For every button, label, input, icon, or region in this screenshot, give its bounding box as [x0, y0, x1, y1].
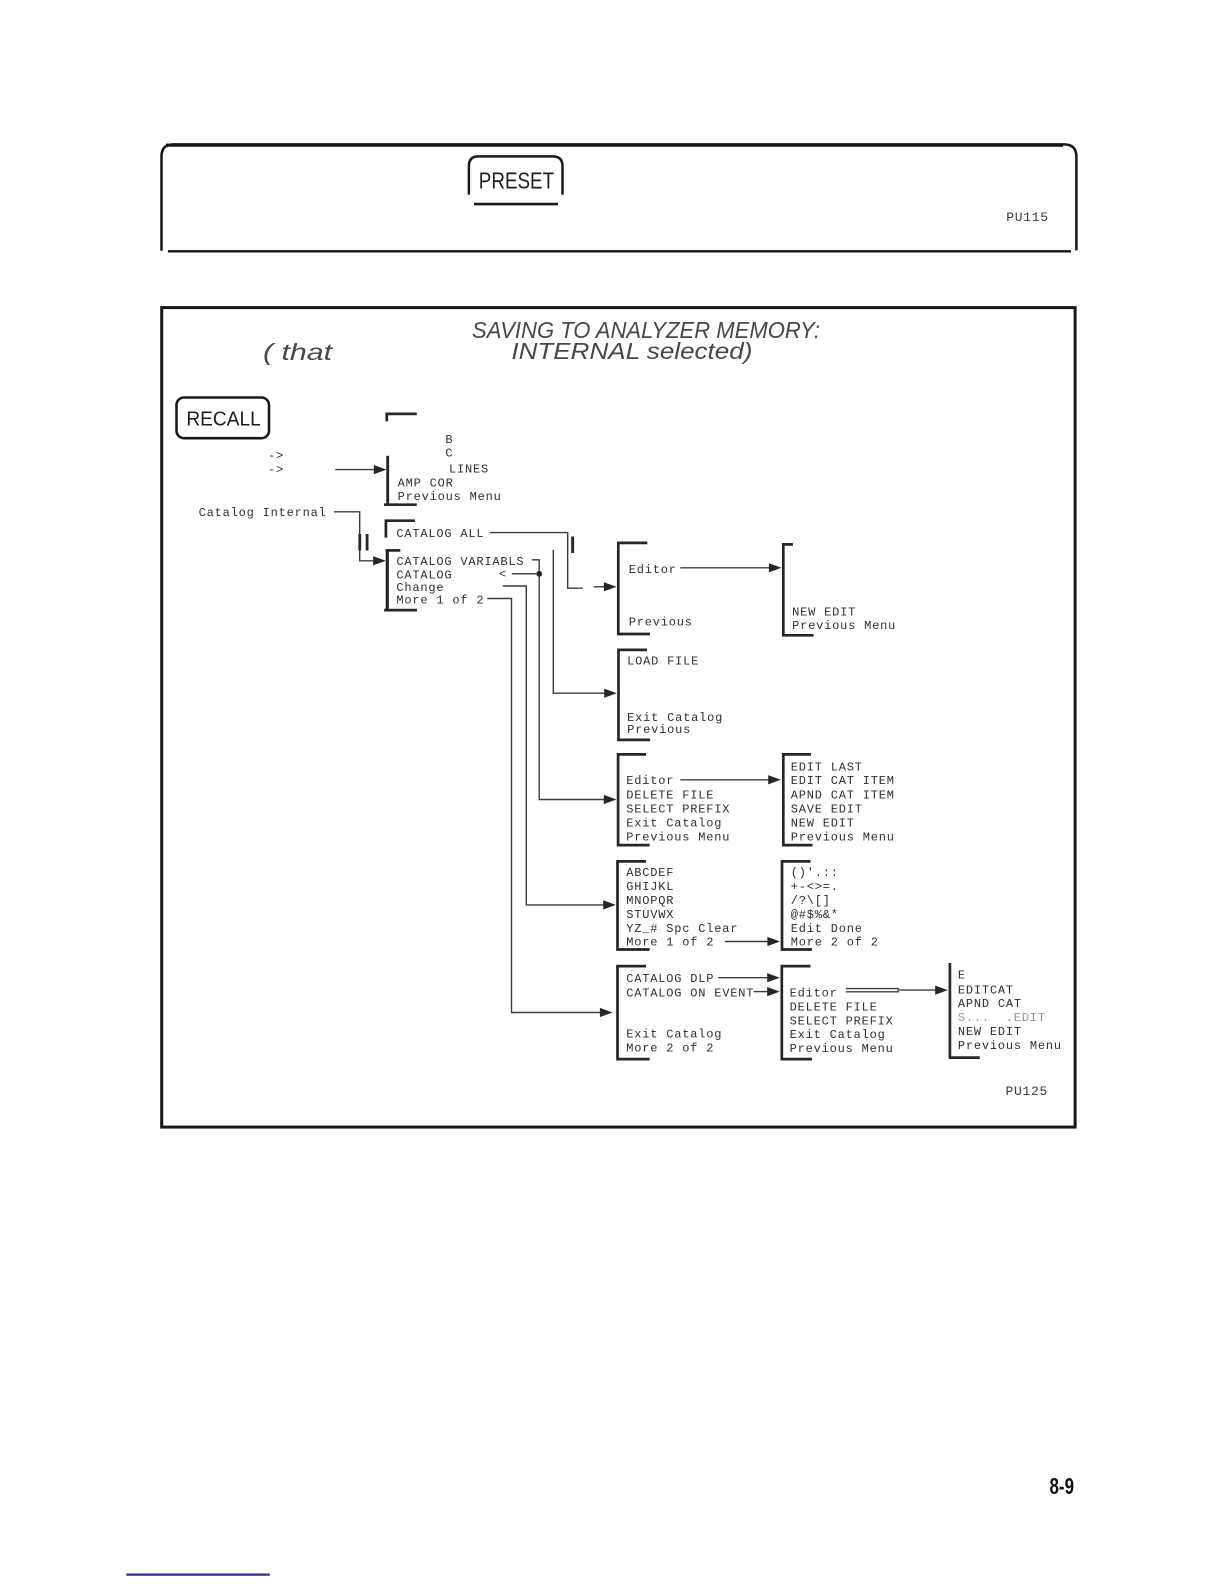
svg-text:LINES: LINES [449, 463, 489, 477]
wire CATALOG ON EVENT to menu M9 [754, 991, 767, 993]
svg-text:SAVE EDIT: SAVE EDIT [791, 802, 863, 816]
svg-text:PRESET: PRESET [479, 168, 554, 194]
wire from Catalog Internal [335, 512, 360, 561]
wire Editor single line to menu M10 [898, 989, 936, 991]
svg-text:CATALOG ALL: CATALOG ALL [396, 527, 484, 541]
svg-text:NEW EDIT: NEW EDIT [791, 817, 855, 831]
menu M8 bracket [618, 966, 649, 1059]
menu M4 bracket [619, 650, 649, 740]
svg-text:MNOPQR: MNOPQR [626, 894, 674, 908]
menu M3 bracket [618, 543, 648, 634]
svg-text:E: E [958, 969, 966, 983]
svg-text:More 1 of 2: More 1 of 2 [396, 593, 484, 607]
svg-text:Editor: Editor [629, 563, 677, 577]
svg-text:/?\[]: /?\[] [791, 894, 831, 908]
top panel bottom line [168, 250, 1071, 252]
svg-text:Exit Catalog: Exit Catalog [626, 817, 722, 831]
key RECALL outline [177, 398, 270, 439]
wire into menu M3 [595, 586, 606, 588]
arrowhead into menu M3 [604, 582, 617, 591]
svg-text:SELECT PREFIX: SELECT PREFIX [790, 1014, 894, 1028]
svg-text:Previous Menu: Previous Menu [791, 830, 895, 844]
svg-text:DELETE FILE: DELETE FILE [790, 1000, 878, 1014]
arrowhead CATALOG ON EVENT into menu M9 [767, 987, 780, 996]
svg-text:B: B [445, 433, 453, 447]
svg-text:PU115: PU115 [1006, 210, 1049, 225]
arrowhead into menu M7 [768, 775, 781, 784]
svg-text:@#$%&*: @#$%&* [791, 908, 839, 922]
wire from Change down to menu M6 [504, 586, 604, 905]
wire More 1 of 2 to menu M6b [726, 941, 769, 943]
svg-text:Previous Menu: Previous Menu [792, 619, 896, 633]
wire from CATALOG VARIABLS down to menu M5 [533, 560, 605, 800]
svg-text:Previous: Previous [627, 723, 691, 737]
svg-text:Exit Catalog: Exit Catalog [790, 1028, 886, 1042]
break bar 2 on Catalog Internal wire [366, 534, 369, 551]
svg-text:NEW EDIT: NEW EDIT [958, 1025, 1022, 1039]
svg-text:CATALOG ON EVENT: CATALOG ON EVENT [626, 987, 754, 1001]
svg-text:->: -> [268, 449, 284, 463]
break bar 1 on Catalog Internal wire [358, 534, 361, 551]
arrowhead into menu M8 [600, 1008, 613, 1017]
svg-text:ABCDEF: ABCDEF [626, 866, 674, 880]
svg-text:LOAD FILE: LOAD FILE [627, 655, 699, 669]
arrowhead into menu M4 [604, 689, 617, 698]
menu M10 bracket [950, 964, 979, 1057]
svg-text:INTERNAL selected): INTERNAL selected) [511, 338, 752, 364]
wire from More 1 of 2 down to menu M8 [488, 599, 601, 1013]
arrowhead CATALOG DLP into menu M9 [767, 973, 780, 982]
arrowhead into menu M1 [374, 465, 387, 474]
top panel top edge thick stroke [166, 144, 1063, 147]
svg-text:DELETE FILE: DELETE FILE [626, 789, 714, 803]
svg-text:C: C [445, 447, 453, 461]
svg-text:8-9: 8-9 [1050, 1473, 1075, 1499]
svg-text:Previous Menu: Previous Menu [790, 1042, 894, 1056]
wire into menu M2 [360, 560, 375, 562]
menu M1 bracket vertical [386, 456, 389, 505]
wire CATALOG DLP to menu M9 [719, 977, 768, 979]
svg-text:Catalog Internal: Catalog Internal [199, 506, 327, 520]
svg-text:CATALOG DLP: CATALOG DLP [626, 972, 714, 986]
svg-text:S... .EDIT: S... .EDIT [958, 1011, 1046, 1025]
svg-text:<: < [499, 568, 507, 582]
menu M2 bracket bottom tick [386, 609, 416, 612]
svg-text:( that: ( that [263, 339, 334, 365]
svg-text:()'.::: ()'.:: [791, 866, 839, 880]
svg-text:More 2 of 2: More 2 of 2 [791, 936, 879, 950]
svg-text:->: -> [268, 463, 284, 477]
svg-text:Previous Menu: Previous Menu [398, 490, 502, 504]
svg-text:EDIT LAST: EDIT LAST [791, 760, 863, 774]
menu M6 bracket [618, 861, 649, 949]
svg-text:Previous Menu: Previous Menu [626, 830, 730, 844]
wire from back arrow to junction [513, 573, 536, 575]
svg-text:YZ_# Spc Clear: YZ_# Spc Clear [626, 922, 738, 936]
menu M1 bracket bottom tick [385, 503, 415, 506]
wire CATALOG ALL jog to editor menu [490, 533, 582, 589]
wire Editor double line lower to menu M10 [847, 991, 899, 993]
svg-text:More 1 of 2: More 1 of 2 [626, 936, 714, 950]
key PRESET underline [474, 203, 558, 206]
arrowhead into menu M10 [935, 986, 948, 995]
svg-text:APND CAT ITEM: APND CAT ITEM [791, 789, 895, 803]
svg-text:Editor: Editor [626, 774, 674, 788]
key PRESET outline [469, 156, 563, 194]
arrowhead into menu M5 [604, 795, 617, 804]
svg-text:EDIT CAT ITEM: EDIT CAT ITEM [791, 774, 895, 788]
svg-text:APND CAT: APND CAT [958, 997, 1022, 1011]
svg-text:EDITCAT: EDITCAT [958, 983, 1014, 997]
menu CATALOG ALL corner bracket [386, 521, 414, 537]
arrowhead into menu M3b [769, 563, 782, 572]
menu M5 bracket [618, 754, 648, 845]
svg-text:SELECT PREFIX: SELECT PREFIX [626, 802, 730, 816]
main diagram box [162, 308, 1075, 1128]
svg-text:Previous Menu: Previous Menu [958, 1039, 1062, 1053]
arrowhead into menu M6 [603, 900, 616, 909]
wire into menu M1 [336, 469, 376, 471]
svg-text:+-<>=.: +-<>=. [791, 880, 839, 894]
svg-text:NEW EDIT: NEW EDIT [792, 605, 856, 619]
svg-text:Editor: Editor [790, 987, 838, 1001]
svg-text:AMP COR: AMP COR [398, 477, 454, 491]
arrowhead into menu M2 [373, 556, 386, 565]
svg-text:Exit Catalog: Exit Catalog [626, 1028, 722, 1042]
wire down to menu M4 LOAD FILE [553, 551, 605, 694]
top panel box [162, 144, 1077, 250]
menu M2 bracket top tick [387, 549, 399, 552]
svg-text:Edit Done: Edit Done [791, 922, 863, 936]
menu M3b bracket [783, 544, 812, 635]
junction dot [536, 571, 542, 577]
svg-text:RECALL: RECALL [186, 408, 260, 430]
svg-text:Previous: Previous [629, 616, 693, 630]
wire Editor double line to menu M10 [847, 988, 899, 990]
arrowhead into menu M6b [767, 937, 780, 946]
svg-text:PU125: PU125 [1006, 1084, 1049, 1099]
svg-text:More 2 of 2: More 2 of 2 [626, 1041, 714, 1055]
wire Editor to menu M3b [681, 567, 770, 569]
break bar on CATALOG ALL drop wire [571, 537, 574, 554]
svg-text:STUVWX: STUVWX [626, 908, 674, 922]
footer blue rule [126, 1573, 269, 1575]
menu M2 bracket vertical [386, 550, 389, 610]
menu M9 bracket [782, 966, 811, 1059]
wire Editor to menu M7 [681, 779, 768, 781]
svg-text:GHIJKL: GHIJKL [626, 880, 674, 894]
menu M1 bracket top tick [387, 414, 416, 420]
menu M7 bracket [783, 754, 811, 845]
menu M6b bracket [782, 861, 811, 949]
